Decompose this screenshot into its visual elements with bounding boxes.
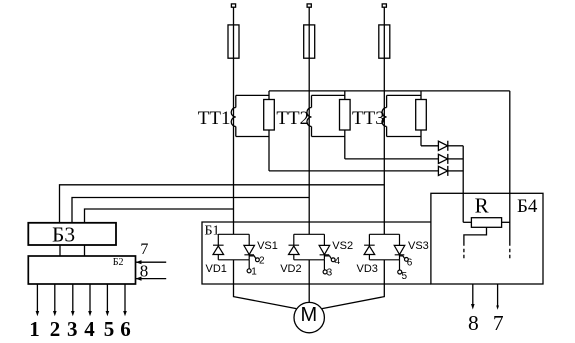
resistor TT2 burden: [340, 100, 351, 131]
svg-text:Б4: Б4: [517, 196, 538, 217]
transformer TT3 secondary winding arcs: [382, 108, 387, 127]
thyristor cells group: [213, 234, 408, 274]
wire TT1 loop top: [236, 94, 269, 96]
thyristor VS2: [319, 245, 330, 254]
terminal lead 2: [54, 284, 56, 312]
wire sync phase C to B3: [60, 185, 385, 223]
fuse F1: [228, 25, 239, 58]
wire TT2 burden top stub: [344, 91, 346, 100]
cell 1: wire bottom: [218, 259, 249, 261]
wire TT1 burden top stub: [268, 91, 270, 100]
arrow terminal 7 of B4: [496, 306, 499, 310]
svg-text:3: 3: [67, 317, 78, 341]
cell 2: wire bottom: [294, 259, 325, 261]
svg-text:VS1: VS1: [257, 240, 278, 252]
transformer TT2 secondary winding arcs: [307, 108, 312, 127]
wire TT1 burden bottom stub: [268, 130, 270, 171]
node 1 circle: [247, 269, 251, 273]
terminal lead 3: [72, 284, 74, 312]
resistor R body: [471, 218, 501, 228]
arrow input 8: [136, 277, 142, 281]
svg-text:TT3: TT3: [352, 108, 385, 129]
wire row from TT1 to diode VD6: [269, 170, 438, 172]
wire TT2 burden bottom stub: [344, 130, 346, 159]
terminal lead 6: [124, 284, 126, 312]
terminal square phase B: [307, 4, 311, 7]
cell 3: cathode lead to node 5: [399, 260, 401, 270]
fuse F2: [304, 25, 315, 58]
cell 3: wire bottom: [369, 259, 399, 261]
wire R right lead: [502, 221, 510, 223]
arrow terminal 1: [36, 311, 40, 316]
wire phase A to motor: [234, 260, 297, 309]
resistor TT1 burden: [264, 100, 275, 131]
arrow terminal 8 of B4: [471, 304, 475, 310]
wire TT3 burden bottom stub: [420, 130, 422, 146]
arrow terminal 4: [88, 311, 92, 316]
cell 2: left branch leads: [293, 234, 295, 259]
terminal lead 4: [89, 284, 91, 312]
motor M circle: [294, 302, 324, 332]
svg-text:6: 6: [120, 317, 131, 341]
node 3 circle: [323, 270, 327, 274]
cell 1: wire top: [218, 233, 249, 235]
wire secondary common bus: [269, 90, 510, 92]
svg-text:3: 3: [327, 268, 333, 279]
diode VD4: [438, 141, 447, 151]
svg-text:8: 8: [140, 262, 149, 281]
wire sync phase B to B3: [72, 198, 309, 223]
block B2 box: [28, 256, 135, 284]
svg-text:VD3: VD3: [357, 263, 378, 275]
wire TT3 loop top: [387, 94, 421, 96]
arrow terminal 3: [71, 311, 75, 316]
svg-text:Б1: Б1: [205, 223, 220, 238]
diode VD2: [289, 245, 300, 254]
svg-text:VS2: VS2: [332, 240, 353, 252]
diode VD1: [213, 245, 224, 254]
arrow terminal 5: [106, 311, 110, 316]
wire R tap step: [464, 227, 487, 246]
svg-text:6: 6: [407, 258, 413, 269]
terminal 8 lead of B4: [472, 284, 474, 305]
thyristor VS2 gate lead: [324, 256, 331, 259]
diode VD6: [438, 166, 447, 176]
transformer TT3 winding leads: [386, 95, 388, 136]
thyristor VS3 gate lead: [400, 256, 405, 259]
transformer TT1 secondary winding arcs: [231, 108, 236, 127]
block B4 box: [431, 193, 543, 284]
svg-text:VS3: VS3: [408, 240, 429, 252]
diode VD3: [364, 245, 375, 254]
cell 3: right branch leads: [399, 234, 401, 259]
svg-text:8: 8: [468, 311, 479, 335]
wire phase B vertical: [308, 7, 310, 234]
thyristor VS3: [394, 245, 405, 254]
wire TT3 loop bottom: [387, 136, 421, 138]
transformer TT2 winding leads: [311, 95, 313, 136]
terminal square phase A: [231, 4, 235, 7]
wire R left lead: [463, 221, 471, 223]
wire row from TT3 to diode VD4: [421, 145, 438, 147]
svg-text:1: 1: [29, 317, 40, 341]
svg-text:5: 5: [402, 271, 408, 282]
cell 1: cathode lead to node 1: [248, 260, 250, 269]
node 6 circle: [405, 258, 409, 262]
wire row from TT2 to diode VD5: [345, 158, 439, 160]
terminal 7 lead of B4: [497, 284, 499, 306]
wire TT2 loop bottom: [312, 136, 345, 138]
svg-text:TT1: TT1: [198, 108, 231, 129]
resistor TT3 burden: [416, 100, 427, 131]
wire phase C vertical: [383, 7, 385, 234]
wire TT1 loop bottom: [236, 136, 269, 138]
svg-text:VD1: VD1: [206, 263, 227, 275]
svg-text:Б2: Б2: [113, 257, 124, 268]
svg-text:4: 4: [84, 317, 95, 341]
wire diode VD5 output: [448, 158, 463, 160]
wire rectified bus down to R: [462, 146, 464, 223]
transformer TT1 winding leads: [235, 95, 237, 136]
svg-text:5: 5: [104, 317, 115, 341]
node 4 circle: [331, 258, 335, 262]
fuse F3: [379, 25, 390, 58]
thyristor VS1 gate lead: [249, 256, 256, 259]
block B3 box: [28, 223, 116, 245]
terminal lead 5: [106, 284, 108, 312]
svg-text:Б3: Б3: [52, 222, 75, 246]
svg-text:VD2: VD2: [280, 263, 301, 275]
arrow terminal 2: [53, 311, 57, 316]
diode VD5: [438, 154, 447, 164]
svg-text:TT2: TT2: [276, 108, 309, 129]
wire B3-B2 link left: [59, 245, 61, 256]
wire input 8 to B2: [136, 278, 167, 280]
cell 2: right branch leads: [323, 234, 325, 259]
svg-text:7: 7: [140, 241, 148, 258]
terminal square phase C: [382, 4, 386, 7]
svg-text:7: 7: [493, 311, 504, 335]
wire B3-B2 link right: [84, 245, 86, 256]
wire phase A vertical: [233, 7, 235, 234]
wire right bus down to R: [509, 91, 511, 246]
block B1 box: [202, 222, 431, 284]
cell 3: left branch leads: [368, 234, 370, 259]
cell 1: left branch leads: [217, 234, 219, 259]
arrow input 7: [136, 260, 142, 264]
cell 2: wire top: [294, 233, 325, 235]
node 5 circle: [398, 270, 402, 274]
svg-text:4: 4: [335, 256, 341, 267]
cell 3: wire top: [369, 233, 399, 235]
wire input 7 to B2: [136, 261, 167, 263]
wire diode VD6 output: [448, 170, 463, 172]
terminal lead 1: [36, 284, 38, 312]
wire dashed right continuation: [509, 249, 511, 259]
wire dashed left continuation: [463, 249, 465, 259]
svg-text:1: 1: [251, 266, 257, 277]
wire TT2 loop top: [312, 94, 345, 96]
svg-text:2: 2: [259, 255, 265, 266]
arrow terminal 6: [123, 311, 127, 316]
thyristor VS1: [244, 245, 255, 254]
svg-text:M: M: [300, 304, 317, 326]
wire phase B to motor: [308, 260, 310, 303]
wire diode VD4 output: [448, 145, 463, 147]
cell 1: right branch leads: [248, 234, 250, 259]
wire phase C to motor: [322, 260, 384, 309]
wire TT3 burden top stub: [420, 91, 422, 100]
wire sync phase A to B3: [85, 209, 234, 223]
svg-text:R: R: [475, 193, 489, 217]
cell 2: cathode lead to node 3: [323, 260, 325, 270]
node 2 circle: [256, 258, 260, 262]
svg-text:2: 2: [50, 317, 61, 341]
